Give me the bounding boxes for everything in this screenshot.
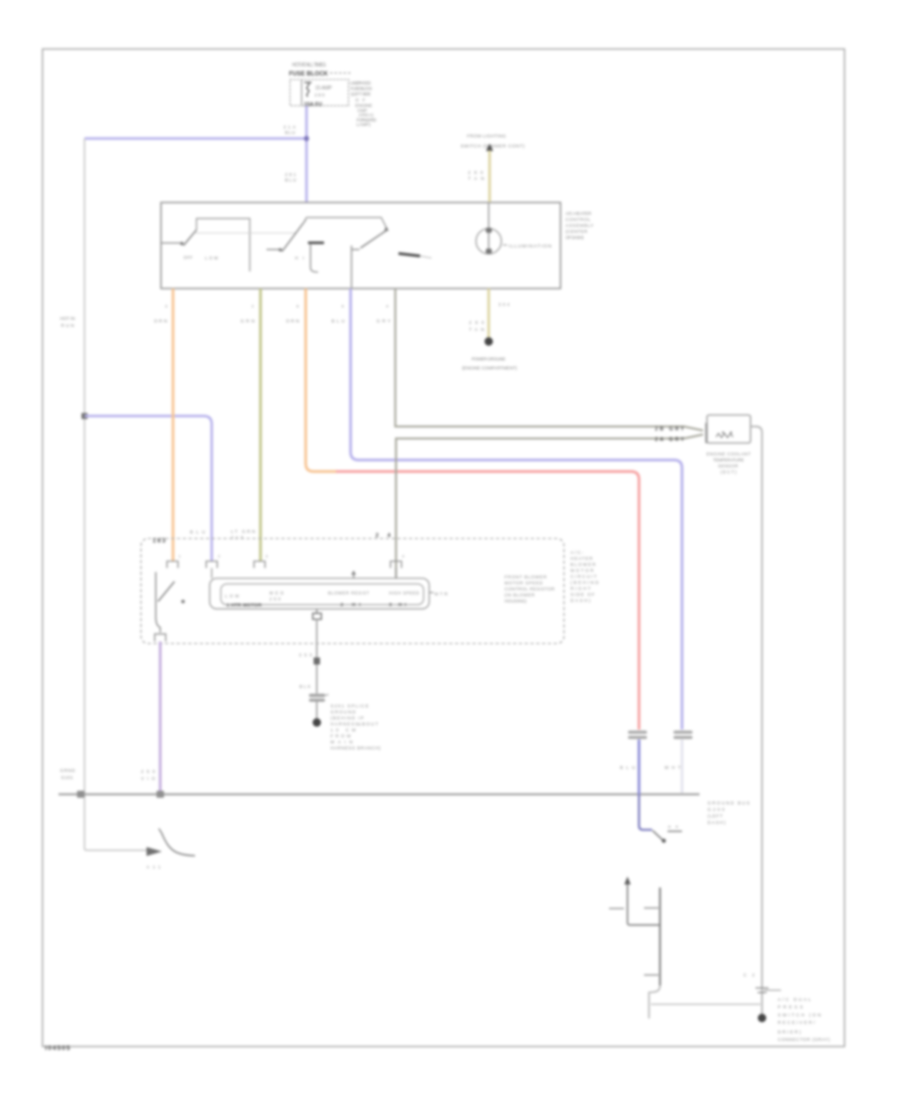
thermistor bracket bbox=[308, 242, 324, 245]
svg-text:ORN: ORN bbox=[286, 319, 299, 324]
switch S4 arm bbox=[162, 834, 195, 856]
link to sensor line bbox=[651, 1003, 761, 1005]
motor mark bbox=[429, 592, 433, 594]
pin line blue into resistor bbox=[211, 568, 213, 578]
switch S4 tick bbox=[159, 829, 163, 835]
wire green 1 bbox=[259, 289, 262, 562]
leader dashes bbox=[330, 72, 352, 74]
svg-text:HOUSING): HOUSING) bbox=[505, 599, 528, 604]
svg-text:304: 304 bbox=[499, 302, 511, 307]
wire white below connector bbox=[681, 740, 684, 794]
svg-text:FROM LIGHTING: FROM LIGHTING bbox=[467, 134, 506, 139]
svg-text:BLU: BLU bbox=[190, 530, 205, 535]
svg-text:3 HI: 3 HI bbox=[389, 602, 407, 608]
svg-text:281: 281 bbox=[285, 172, 297, 177]
svg-text:LAMP): LAMP) bbox=[357, 122, 371, 127]
svg-text:SWITCH (DIMMER CONT): SWITCH (DIMMER CONT) bbox=[461, 144, 525, 149]
svg-text:HOT IN: HOT IN bbox=[60, 316, 75, 321]
svg-text:BLOWER RESIST: BLOWER RESIST bbox=[328, 591, 369, 596]
svg-text:2: 2 bbox=[218, 555, 220, 559]
svg-text:BLOWER: BLOWER bbox=[571, 562, 596, 567]
svg-text:BLU: BLU bbox=[332, 319, 345, 324]
tree tick far left bbox=[609, 908, 624, 910]
connector pin blue bbox=[206, 561, 217, 568]
fuse element bbox=[305, 83, 312, 97]
tree tick 2 bbox=[644, 974, 659, 976]
tree tick 1 bbox=[644, 907, 659, 909]
svg-text:CONNECTOR (GRAY): CONNECTOR (GRAY) bbox=[778, 1037, 831, 1042]
switch S2 plate bbox=[303, 218, 388, 230]
svg-text:(BEHIND IP: (BEHIND IP bbox=[331, 716, 364, 721]
switch S1 plate bbox=[197, 219, 250, 272]
connector pin orange bbox=[167, 561, 178, 568]
svg-text:FRONT BLOWER: FRONT BLOWER bbox=[505, 575, 547, 580]
svg-text:GROUND: GROUND bbox=[331, 710, 356, 715]
module M1 dashed box bbox=[141, 539, 564, 644]
svg-text:OF DASH): OF DASH) bbox=[566, 235, 584, 240]
svg-text:21A: 21A bbox=[284, 125, 296, 130]
svg-text:RIGHT: RIGHT bbox=[571, 586, 591, 591]
connector pin gray bbox=[391, 561, 402, 568]
svg-text:BLU: BLU bbox=[285, 130, 295, 135]
wire blue 2 bbox=[351, 289, 682, 730]
svg-text:GROUND BUS: GROUND BUS bbox=[708, 801, 750, 806]
sensor line connector bbox=[756, 988, 769, 993]
svg-text:(ECT): (ECT) bbox=[721, 470, 738, 475]
tap dark block bbox=[314, 658, 320, 665]
svg-text:RECEIVER/: RECEIVER/ bbox=[778, 1020, 816, 1025]
svg-text:1: 1 bbox=[179, 555, 181, 559]
svg-text:HOT AT ALL TIMES: HOT AT ALL TIMES bbox=[292, 63, 327, 69]
svg-text:ENGINE COOLANT: ENGINE COOLANT bbox=[707, 452, 751, 457]
svg-text:CONTROL: CONTROL bbox=[566, 217, 591, 222]
svg-text:350: 350 bbox=[299, 653, 313, 658]
svg-text:LOW: LOW bbox=[205, 256, 218, 261]
ground dot G4 bbox=[758, 1014, 766, 1022]
fuse block F1 box bbox=[290, 80, 349, 106]
switch S5 contact bbox=[668, 830, 683, 832]
svg-text:WHT: WHT bbox=[665, 765, 681, 770]
svg-text:(IN BLOWER: (IN BLOWER bbox=[505, 593, 535, 598]
inline connector red-blue bbox=[628, 731, 647, 734]
svg-text:2B GRY: 2B GRY bbox=[655, 426, 685, 432]
svg-text:BLK: BLK bbox=[300, 684, 311, 689]
svg-text:MTR: MTR bbox=[435, 592, 448, 597]
svg-text:SIDE OF: SIDE OF bbox=[571, 592, 595, 597]
inline connector bbox=[309, 694, 325, 697]
switch S1 feed stub bbox=[161, 242, 180, 244]
svg-text:HARNESS BRANCH): HARNESS BRANCH) bbox=[331, 746, 382, 751]
detent dotted line bbox=[196, 232, 296, 234]
wire violet to ground bus bbox=[159, 642, 162, 795]
svg-text:280: 280 bbox=[468, 170, 484, 175]
svg-text:CIRCUIT: CIRCUIT bbox=[571, 574, 597, 579]
switch S1 contact bbox=[180, 242, 183, 245]
connector tree arrow bbox=[624, 877, 630, 885]
tap connector bbox=[313, 613, 322, 619]
switch S5 arm bbox=[653, 831, 663, 840]
svg-text:SENSOR: SENSOR bbox=[718, 464, 738, 469]
svg-text:HARNESS,: HARNESS, bbox=[331, 722, 361, 727]
node dot left bbox=[82, 413, 88, 419]
svg-text:S201 SPLICE: S201 SPLICE bbox=[331, 704, 369, 709]
switch S2 stub bbox=[267, 249, 280, 251]
svg-text:CONTROL RESISTOR: CONTROL RESISTOR bbox=[505, 587, 555, 592]
wire gray sensor right bbox=[751, 427, 763, 1015]
svg-text:FUSE BLOCK: FUSE BLOCK bbox=[351, 86, 374, 91]
node dot bus-left bbox=[77, 791, 85, 798]
svg-text:(LEFT SIDE: (LEFT SIDE bbox=[351, 91, 371, 96]
wire gray A bbox=[395, 289, 703, 431]
wire tan dimmer bbox=[488, 151, 491, 203]
svg-text:LT GRN: LT GRN bbox=[231, 529, 255, 534]
svg-text:3: 3 bbox=[266, 555, 268, 559]
pin line to blower bbox=[351, 246, 353, 289]
svg-text:(LEFT: (LEFT bbox=[708, 814, 723, 819]
switch S3 stub bbox=[352, 249, 360, 251]
svg-text:15 AMP: 15 AMP bbox=[315, 86, 333, 92]
svg-text:MOTOR SPEED: MOTOR SPEED bbox=[505, 581, 543, 586]
svg-text:GRY: GRY bbox=[377, 319, 391, 324]
svg-text:213: 213 bbox=[231, 535, 244, 540]
ground bus bbox=[59, 793, 700, 795]
wire tan lamp ground bbox=[487, 289, 490, 339]
wire blue horizontal mid-left bbox=[85, 416, 212, 561]
wire dkblue below connector bbox=[638, 740, 641, 795]
coolant sensor box bbox=[707, 415, 751, 443]
svg-text:RUN: RUN bbox=[61, 323, 74, 328]
svg-text:MOTOR: MOTOR bbox=[571, 568, 594, 573]
svg-text:HEATER: HEATER bbox=[571, 556, 593, 561]
svg-text:GRN: GRN bbox=[241, 319, 255, 324]
switch S2 arm bbox=[282, 220, 306, 252]
svg-text:TAN: TAN bbox=[469, 327, 484, 332]
svg-text:POWER GROUND: POWER GROUND bbox=[472, 357, 507, 362]
connector pin green bbox=[254, 561, 265, 568]
svg-text:VIO: VIO bbox=[141, 776, 156, 781]
contact A/C dark bbox=[399, 254, 421, 257]
plate arrowhead bbox=[384, 227, 389, 232]
sensor resistor symbol bbox=[716, 434, 733, 438]
wire gray B bbox=[396, 435, 703, 579]
switch S3 arm bbox=[361, 230, 388, 248]
connector bracket CTS bbox=[706, 424, 712, 443]
svg-text:UNDERHOOD: UNDERHOOD bbox=[350, 80, 372, 85]
connector pin bottom bbox=[155, 634, 166, 642]
wire blue from fuse to control panel bbox=[305, 106, 308, 202]
switch M1 arm bbox=[158, 582, 175, 602]
inline connector blue-white bbox=[674, 731, 693, 734]
svg-text:GRND: GRND bbox=[60, 768, 76, 773]
blower resistor outer box bbox=[210, 578, 430, 609]
wire gray left feed vertical bbox=[85, 139, 149, 851]
blower resistor inner box bbox=[221, 584, 424, 605]
A/C-heater control panel box U1 bbox=[161, 203, 561, 289]
svg-text:A/C-: A/C- bbox=[571, 550, 585, 555]
ground dot G2 bbox=[485, 337, 493, 345]
junction dot bbox=[304, 136, 309, 141]
label illumination bbox=[503, 244, 507, 246]
svg-text:(ENGINE COMPARTMENT): (ENGINE COMPARTMENT) bbox=[462, 366, 517, 371]
svg-text:(CENTER: (CENTER bbox=[566, 229, 589, 234]
arrow stub into resistor bbox=[353, 571, 355, 578]
svg-text:TEMPERATURE: TEMPERATURE bbox=[713, 458, 744, 463]
wire orange 2 to red bbox=[306, 289, 337, 472]
svg-text:DASH): DASH) bbox=[708, 820, 727, 825]
ground dot G3 bbox=[313, 718, 321, 726]
svg-text:250: 250 bbox=[141, 769, 156, 774]
svg-text:MED: MED bbox=[270, 591, 284, 596]
svg-text:FUSE BLOCK: FUSE BLOCK bbox=[289, 72, 329, 78]
svg-text:ILLUMINATION: ILLUMINATION bbox=[509, 243, 553, 249]
svg-text:G101: G101 bbox=[61, 775, 73, 780]
tree trunk bbox=[659, 888, 661, 986]
svg-text:4: 4 bbox=[402, 555, 404, 559]
switch S5 below bus bbox=[639, 794, 652, 830]
switch S4 left contact bbox=[147, 847, 163, 856]
svg-text:OFF: OFF bbox=[184, 255, 193, 260]
node dot bus-violet bbox=[157, 791, 165, 798]
wire blue branch horizontal bbox=[85, 137, 307, 140]
svg-text:HIGH SPEED: HIGH SPEED bbox=[389, 591, 419, 596]
svg-text:A/C DUAL: A/C DUAL bbox=[778, 997, 812, 1002]
svg-text:ASSEMBLY: ASSEMBLY bbox=[566, 223, 594, 228]
svg-text:163: 163 bbox=[153, 539, 167, 545]
svg-text:ORN: ORN bbox=[154, 319, 167, 324]
svg-text:I04505: I04505 bbox=[45, 1045, 70, 1052]
feed arrowhead bbox=[486, 144, 493, 152]
svg-text:LOW: LOW bbox=[225, 594, 239, 599]
center tap wire bbox=[316, 609, 318, 614]
svg-text:2A GRY: 2A GRY bbox=[655, 437, 685, 443]
illumination lamp L1 bbox=[476, 229, 501, 254]
switch M1 post bbox=[156, 572, 160, 633]
svg-text:280: 280 bbox=[315, 93, 325, 98]
contact dot bbox=[181, 600, 185, 604]
svg-text:A/C-HEATER: A/C-HEATER bbox=[566, 211, 593, 216]
switch S2 contact bbox=[279, 248, 282, 251]
svg-text:280: 280 bbox=[469, 320, 485, 325]
svg-text:BLU: BLU bbox=[285, 178, 296, 183]
svg-text:BLU: BLU bbox=[620, 765, 635, 770]
wire orange 1 bbox=[172, 289, 175, 562]
svg-text:250: 250 bbox=[270, 597, 282, 602]
tree foot bbox=[649, 986, 660, 1019]
wire red horizontal bbox=[336, 472, 639, 730]
pin line gray into resistor bbox=[395, 568, 397, 578]
switch S1 arm bbox=[184, 230, 197, 246]
svg-text:1 HTR MOTOR: 1 HTR MOTOR bbox=[227, 603, 262, 609]
svg-text:A11: A11 bbox=[147, 865, 162, 870]
